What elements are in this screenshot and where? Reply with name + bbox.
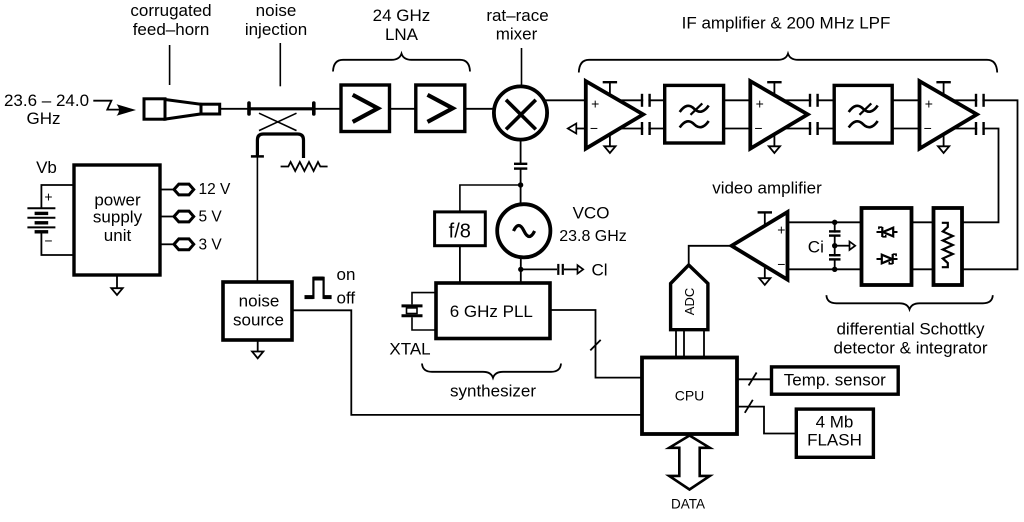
LNA amplifier A2: [416, 85, 465, 132]
brace differential Schottky: [826, 295, 992, 309]
wire IF + rail amp2 to filter2: [782, 99, 834, 101]
svg-text:VCO: VCO: [573, 204, 610, 223]
noise source box: [223, 282, 292, 340]
wire video amp to ADC: [689, 246, 732, 265]
filter F1 200 MHz LPF: [665, 85, 724, 143]
svg-text:detector & integrator: detector & integrator: [833, 339, 987, 358]
node VCO-PLL junction: [518, 267, 523, 272]
connector 5 V: [160, 209, 222, 226]
wire VCO to PLL: [520, 257, 522, 284]
svg-text:12 V: 12 V: [199, 181, 232, 198]
VCO oscillator: [497, 204, 550, 257]
label rat-race mixer: [486, 6, 548, 44]
svg-text:GHz: GHz: [27, 109, 61, 128]
svg-text:+: +: [756, 96, 764, 112]
bus slash PLL-CPU: [590, 340, 600, 351]
svg-text:differential Schottky: differential Schottky: [836, 320, 985, 339]
wire CPU to temp sensor: [737, 378, 772, 380]
svg-text:rat–race: rat–race: [486, 6, 548, 25]
wire junction to f/8: [460, 185, 521, 213]
wire diode box to resistor box bottom: [912, 268, 934, 270]
Schottky diode box: [862, 208, 912, 285]
wire f/8 to PLL: [459, 246, 461, 284]
svg-text:feed–horn: feed–horn: [133, 20, 210, 39]
svg-text:IF amplifier & 200 MHz LPF: IF amplifier & 200 MHz LPF: [682, 14, 891, 33]
svg-text:video amplifier: video amplifier: [712, 179, 822, 198]
IF amplifier U1: [586, 81, 643, 153]
coupler port tick: [251, 155, 264, 158]
connector 3 V: [160, 237, 222, 254]
ground noise source: [252, 340, 263, 358]
svg-text:5 V: 5 V: [199, 209, 223, 226]
svg-text:Cl: Cl: [592, 260, 608, 279]
capacitor LO: [514, 164, 527, 169]
svg-text:Temp. sensor: Temp. sensor: [784, 370, 886, 389]
flash memory box: [796, 409, 873, 457]
wire IF - output to detector: [950, 129, 999, 223]
svg-text:24 GHz: 24 GHz: [373, 6, 431, 25]
wire coupler thick section: [249, 107, 314, 110]
termination resistor: [281, 162, 328, 171]
wire video amp - rail to diode box: [788, 268, 861, 270]
svg-text:source: source: [233, 311, 284, 330]
DATA arrow: [669, 436, 710, 490]
svg-text:CPU: CPU: [675, 388, 705, 404]
Temp. sensor box: [772, 367, 899, 394]
arrow Ci tap: [835, 242, 856, 250]
capacitor C3a C3b after amp3: [976, 94, 984, 135]
filter F2 200 MHz LPF: [834, 85, 892, 143]
wire LO to VCO: [520, 169, 522, 205]
node LO junction: [518, 182, 523, 187]
IF amplifier U3: [920, 81, 977, 153]
capacitor Ci pair: [828, 222, 841, 269]
PLL box 6 GHz PLL: [436, 283, 550, 339]
wire and arrow Cl output: [564, 265, 583, 273]
capacitor Cl: [558, 264, 563, 275]
svg-text:noise: noise: [256, 1, 297, 20]
svg-text:off: off: [337, 289, 356, 308]
svg-text:4 Mb: 4 Mb: [816, 413, 854, 432]
bus slash temp sensor: [749, 373, 757, 386]
wire IF rails filter2 to amp3: [892, 100, 919, 128]
svg-text:FLASH: FLASH: [807, 431, 862, 450]
bus slash flash: [745, 400, 753, 413]
leader line noise injection: [279, 43, 281, 86]
capacitor gaps: [643, 93, 982, 137]
svg-text:synthesizer: synthesizer: [450, 382, 536, 401]
brace synthesizer: [422, 364, 561, 378]
svg-text:mixer: mixer: [496, 25, 538, 44]
svg-text:on: on: [337, 265, 356, 284]
svg-text:−: −: [924, 120, 932, 136]
wire LNA1 to LNA2: [390, 108, 416, 110]
LNA amplifier A1: [341, 85, 390, 132]
label input 23.6-24.0 GHz: [4, 91, 89, 128]
node Ci top: [832, 220, 837, 225]
svg-text:+: +: [925, 96, 933, 112]
leader line rat-race mixer: [521, 48, 523, 86]
wire IF - rail amp1 to filter1: [617, 128, 665, 130]
svg-text:23.6 – 24.0: 23.6 – 24.0: [4, 91, 89, 110]
svg-text:6 GHz PLL: 6 GHz PLL: [450, 302, 533, 321]
corrugated feed-horn symbol: [144, 99, 220, 119]
wire horn to coupler: [220, 108, 249, 110]
svg-text:LNA: LNA: [385, 25, 419, 44]
svg-text:+: +: [591, 96, 599, 112]
brace LNA: [333, 54, 470, 72]
svg-text:−: −: [590, 120, 598, 136]
label corrugated feed-horn: [130, 1, 211, 39]
wire IF + rail amp1 to filter1: [617, 99, 665, 101]
label noise injection: [245, 1, 307, 39]
svg-text:23.8 GHz: 23.8 GHz: [559, 228, 627, 245]
svg-text:−: −: [754, 120, 762, 136]
wire IF - rail amp2 to filter2: [782, 128, 834, 130]
wire mixer to IF amp: [543, 99, 586, 101]
IF output arrow on minus input: [568, 124, 586, 134]
video amplifier U4: [732, 212, 788, 285]
pulse on/off symbol: [305, 277, 332, 299]
svg-text:ADC: ADC: [682, 288, 697, 315]
ground power supply: [111, 275, 122, 295]
wire video amp + rail to diode box: [788, 221, 861, 223]
wire LNA2 to mixer: [465, 108, 497, 110]
wire PLL to CPU: [550, 310, 642, 378]
battery Vb: [27, 185, 74, 255]
wires ADC to CPU bus: [676, 330, 704, 358]
input arrow: [93, 101, 136, 116]
coupler cross X: [259, 113, 297, 130]
svg-text:−: −: [777, 256, 785, 272]
node Ci bottom: [832, 267, 837, 272]
svg-text:supply: supply: [93, 208, 143, 227]
rat-race mixer: [494, 86, 547, 139]
svg-text:XTAL: XTAL: [389, 339, 430, 358]
wire IF + output to right edge: [950, 100, 1018, 269]
crystal XTAL: [402, 293, 437, 330]
svg-text:+: +: [44, 189, 52, 205]
wire mixer LO: [520, 138, 522, 163]
svg-text:injection: injection: [245, 20, 307, 39]
leader line feed-horn: [169, 45, 171, 85]
svg-text:f/8: f/8: [449, 221, 471, 243]
integrator resistor box: [934, 208, 963, 285]
wire IF rails filter1 to amp2: [724, 100, 751, 128]
svg-text:+: +: [777, 222, 785, 238]
wire junction to Cl capacitor: [521, 268, 557, 270]
wire diode box to resistor box top: [912, 221, 934, 223]
label VCO 23.8 GHz: [559, 204, 627, 246]
capacitor C1a C1b after amp1: [642, 94, 650, 135]
label 24 GHz LNA: [373, 6, 431, 44]
coupler tick left: [247, 103, 251, 114]
divider f/8: [435, 212, 486, 246]
connector 12 V: [160, 181, 231, 198]
IF amplifier U2: [750, 81, 807, 153]
wire CPU to flash: [737, 407, 796, 434]
svg-text:DATA: DATA: [671, 497, 705, 512]
wire coupler to noise source: [256, 157, 258, 282]
svg-text:noise: noise: [239, 292, 280, 311]
svg-text:3 V: 3 V: [199, 237, 223, 254]
wire coupler to LNA: [314, 108, 341, 110]
svg-text:Vb: Vb: [36, 158, 57, 177]
coupled line U: [257, 134, 303, 158]
power supply unit box: [74, 165, 160, 275]
label differential Schottky detector & integrator: [833, 320, 987, 358]
ADC converter: [671, 265, 708, 330]
svg-text:unit: unit: [104, 226, 132, 245]
wire noise source to CPU: [292, 310, 642, 415]
svg-text:Ci: Ci: [808, 238, 824, 257]
svg-text:−: −: [44, 233, 52, 249]
coupler tick right: [312, 103, 316, 114]
brace IF chain: [579, 54, 997, 73]
node Ci middle: [832, 243, 837, 248]
CPU box: [642, 358, 737, 435]
capacitor C2a C2b after amp2: [810, 94, 818, 135]
svg-text:corrugated: corrugated: [130, 1, 211, 20]
